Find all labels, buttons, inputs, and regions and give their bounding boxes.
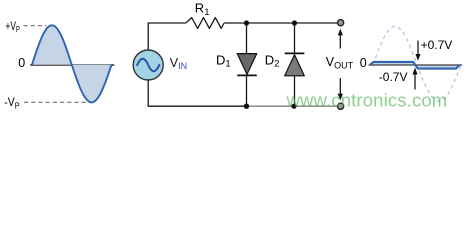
node junction D2 top (292, 20, 297, 25)
terminal VOUT bottom (338, 103, 344, 109)
input sine wave Vin (32, 25, 112, 102)
bottom rail gray segment (246, 105, 337, 107)
output clipped waveform (370, 62, 460, 69)
wire from source top to resistor (148, 23, 186, 50)
wire D2 anode (294, 76, 296, 106)
input +Vp dashed level line (24, 25, 47, 27)
output zero axis (369, 64, 463, 66)
svg-text:+VP: +VP (6, 19, 21, 34)
input zero axis (30, 64, 114, 66)
wire D1 anode (246, 23, 248, 54)
svg-text:-VP: -VP (4, 95, 20, 110)
svg-text:-0.7V: -0.7V (379, 70, 408, 84)
svg-text:www.cntronics.com: www.cntronics.com (286, 89, 448, 110)
terminal VOUT top (338, 20, 344, 26)
svg-text:0: 0 (18, 56, 25, 70)
diode D1 (237, 54, 257, 76)
-0.7V pointer arrow (412, 68, 417, 90)
VOUT arrow down (338, 78, 343, 100)
output dashed input sine (373, 26, 461, 101)
VOUT arrow up (338, 29, 343, 49)
resistor R1 (186, 18, 224, 29)
+0.7V pointer arrow (415, 41, 420, 61)
svg-text:VIN: VIN (170, 56, 187, 71)
svg-text:VOUT: VOUT (326, 55, 354, 70)
svg-text:R1: R1 (195, 1, 210, 18)
wire D1 cathode (246, 75, 248, 106)
ac source VIN (133, 50, 163, 80)
svg-text:D1: D1 (216, 53, 231, 70)
wire top from resistor to output terminal (224, 22, 337, 24)
wire D2 top (cathode) (294, 23, 296, 54)
output clipped waveform fill band (370, 62, 460, 69)
node junction D1 top (244, 20, 249, 25)
svg-text:+0.7V: +0.7V (421, 38, 453, 52)
input -Vp dashed level line (24, 101, 87, 103)
svg-text:D2: D2 (265, 53, 280, 70)
node junction D1 bottom (244, 104, 249, 109)
wire from source bottom to bottom rail (148, 80, 246, 106)
diode D2 (285, 53, 305, 75)
svg-text:0: 0 (360, 56, 367, 70)
node junction D2 bottom (291, 104, 296, 109)
